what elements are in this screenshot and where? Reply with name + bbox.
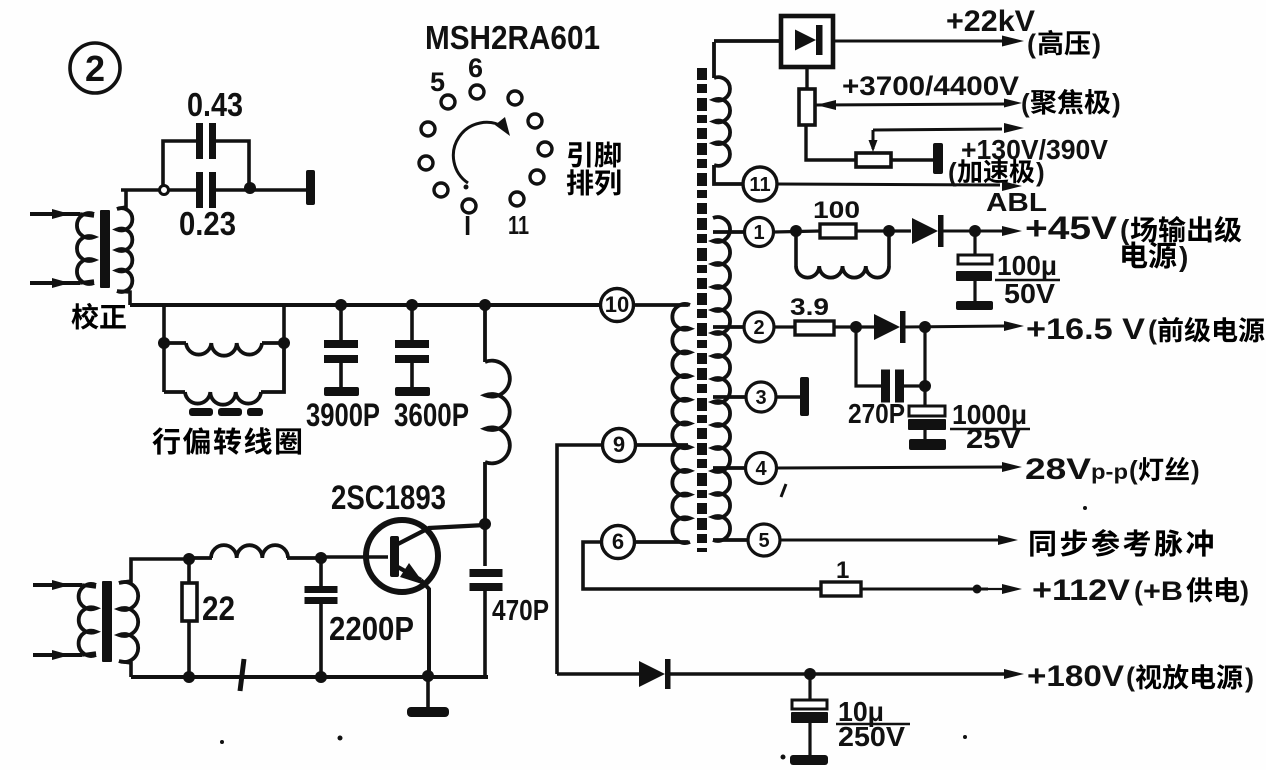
wire focus R to pot <box>806 125 856 160</box>
svg-text:+45V: +45V <box>1025 210 1118 246</box>
node emitter bottom <box>422 670 434 682</box>
svg-text:0.43: 0.43 <box>187 86 243 123</box>
resistor focus <box>799 89 815 125</box>
svg-text:): ) <box>1036 157 1045 187</box>
svg-text:(: ( <box>948 157 957 187</box>
wire D2 out <box>904 326 1006 327</box>
inductor pin1 parallel <box>794 231 798 266</box>
wire T2 sec bottom <box>119 661 131 677</box>
wire pin10 lead <box>633 303 688 307</box>
wire base lead <box>321 555 388 559</box>
wire accel line <box>873 129 1002 130</box>
svg-text:250V: 250V <box>838 721 905 752</box>
node pin1 b <box>883 225 895 237</box>
svg-text:(: ( <box>1120 214 1130 245</box>
svg-text:2200P: 2200P <box>329 610 414 647</box>
tick mark <box>240 659 244 691</box>
svg-text:(: ( <box>1021 88 1030 118</box>
node 22 bottom <box>183 671 195 683</box>
ground <box>426 677 430 708</box>
svg-text:+16.5 V: +16.5 V <box>1026 313 1145 346</box>
svg-text:22: 22 <box>202 590 235 628</box>
svg-text:+B: +B <box>1143 576 1183 606</box>
node 3600P top <box>406 299 418 311</box>
capacitor 100u <box>973 231 976 255</box>
capacitor 470P <box>483 524 487 566</box>
wire pin1 to R100 <box>774 231 820 232</box>
svg-text:0.23: 0.23 <box>179 205 236 242</box>
pin 11 <box>743 167 777 201</box>
transformer T2 core <box>102 581 112 662</box>
node base node <box>183 553 195 565</box>
svg-text:2SC1893: 2SC1893 <box>331 479 446 517</box>
resistor 22 <box>187 559 191 583</box>
svg-text:3600P: 3600P <box>394 397 469 433</box>
inductor base <box>189 556 212 560</box>
svg-text:+130V/390V: +130V/390V <box>961 134 1108 165</box>
wire input bottom lead <box>30 281 80 285</box>
inductor deflection bottom <box>164 390 185 394</box>
wire pin2 lead <box>713 325 745 329</box>
node open circle <box>160 186 169 195</box>
wire T1 sec top to 0.23 line <box>117 190 126 209</box>
node 180V <box>804 668 816 680</box>
terminal bar accel <box>933 143 943 174</box>
label 电源 <box>1122 242 1147 269</box>
node 2200P top <box>315 552 327 564</box>
svg-text:10: 10 <box>605 292 629 317</box>
svg-text:+180V: +180V <box>1027 660 1124 693</box>
pin 2 <box>744 312 774 342</box>
svg-text:100: 100 <box>813 197 860 224</box>
svg-text:2: 2 <box>753 317 764 339</box>
node pin1 a <box>790 225 802 237</box>
svg-text:3.9: 3.9 <box>790 294 829 321</box>
svg-text:6: 6 <box>612 529 624 554</box>
svg-text:28V: 28V <box>1025 453 1091 486</box>
inductor T2 primary <box>79 584 96 656</box>
svg-text:(: ( <box>1134 576 1143 606</box>
wire pin4 lead <box>713 466 746 470</box>
wire ground bus <box>131 675 488 679</box>
svg-text:): ) <box>1240 576 1249 606</box>
label 排列 <box>567 169 593 195</box>
svg-text:6: 6 <box>468 53 483 83</box>
capacitor 270P <box>856 327 881 386</box>
wire R100 to diode <box>856 229 911 232</box>
node 3900P top <box>335 299 347 311</box>
wire T1 sec bottom to bus <box>117 291 130 305</box>
label 同步参考脉冲 <box>1030 531 1055 557</box>
wire 180V line <box>669 672 1004 675</box>
pin layout circles <box>470 85 484 99</box>
wire 0.43 loop left <box>163 141 196 185</box>
diode D1 <box>912 218 938 244</box>
svg-text:5: 5 <box>430 67 445 97</box>
pot wiper <box>872 130 875 149</box>
wire 0.23 line left <box>121 188 196 192</box>
pin layout arc <box>453 122 505 183</box>
wire 180V left <box>557 672 640 676</box>
capacitor C 3600P <box>410 305 414 340</box>
node +112V <box>973 585 982 594</box>
pin 10 <box>601 289 634 322</box>
svg-text:50V: 50V <box>1004 278 1055 309</box>
node pin2 a <box>850 321 862 333</box>
svg-text:(: ( <box>1129 455 1138 485</box>
pin 6 <box>602 526 635 559</box>
wire pin5 line <box>780 539 1000 542</box>
pin 4 <box>746 453 777 484</box>
wire pin6 left <box>583 542 821 589</box>
node junction <box>244 182 256 194</box>
pin 1 <box>745 218 774 247</box>
svg-text:(: ( <box>1126 662 1135 692</box>
wire R to D2 <box>834 325 876 328</box>
wire pin5 lead <box>713 538 748 542</box>
terminal bar pin3 <box>800 377 809 416</box>
label 校正 <box>72 303 99 330</box>
wire pin1 lead <box>713 230 745 234</box>
capacitor 2200P <box>319 558 323 586</box>
wire pin9 lead <box>636 443 688 447</box>
svg-text:470P: 470P <box>492 595 549 627</box>
svg-text:11: 11 <box>508 210 529 240</box>
svg-text:100μ: 100μ <box>997 250 1057 281</box>
wire focus line <box>816 104 1004 105</box>
transistor Q1 collector <box>396 525 485 545</box>
resistor 100 <box>820 224 856 238</box>
transformer FBT core <box>697 68 707 552</box>
node +45V <box>969 225 981 237</box>
svg-text:): ) <box>1092 29 1101 59</box>
HV rectifier box <box>781 16 833 67</box>
wire D1 out <box>943 230 1006 233</box>
node coil left <box>158 337 170 349</box>
svg-text:3900P: 3900P <box>306 397 380 433</box>
capacitor 10u <box>808 674 811 700</box>
resistor 1 <box>821 582 861 596</box>
wire HV top <box>714 39 781 43</box>
svg-text:+22kV: +22kV <box>946 5 1035 38</box>
wire +22kV line <box>833 40 1006 43</box>
transformer T1 core <box>100 210 110 288</box>
svg-text:(: ( <box>1027 29 1036 59</box>
svg-text:): ) <box>1112 88 1121 118</box>
node pin2 b <box>919 321 931 333</box>
node 2200P bottom <box>315 671 327 683</box>
inductor deflection top <box>164 341 186 345</box>
svg-text:MSH2RA601: MSH2RA601 <box>425 19 600 56</box>
wire pin6 lead <box>635 540 688 544</box>
capacitor C 3900P <box>339 305 343 340</box>
node drive coil top <box>479 299 491 311</box>
svg-text:): ) <box>1179 241 1188 272</box>
wire drive input top lead <box>33 583 82 587</box>
pin 5 <box>748 524 780 556</box>
inductor T1 primary <box>77 213 94 284</box>
inductor T1 secondary <box>117 208 132 292</box>
stray tick <box>781 484 786 497</box>
resistor 3.9 <box>795 321 834 335</box>
svg-text:1: 1 <box>836 557 849 584</box>
svg-text:p-p: p-p <box>1091 461 1128 484</box>
svg-text:5: 5 <box>758 530 769 552</box>
potentiometer screen <box>856 153 891 167</box>
inductor T2 secondary <box>119 582 138 662</box>
svg-text:25V: 25V <box>966 423 1021 454</box>
svg-text:11: 11 <box>749 174 770 196</box>
transistor Q1 body <box>366 520 438 592</box>
node collector junction <box>479 518 491 530</box>
svg-text:): ) <box>1191 455 1200 485</box>
label 行偏转线圈 <box>152 427 179 454</box>
wire pin3 lead <box>713 395 746 399</box>
wire pin9 left <box>557 445 603 674</box>
svg-text:+3700/4400V: +3700/4400V <box>842 71 1019 101</box>
node 270P out <box>919 380 931 392</box>
svg-text:1: 1 <box>753 222 764 244</box>
wire drive input bottom lead <box>33 653 82 657</box>
svg-text:9: 9 <box>613 432 625 457</box>
diode D3 <box>639 661 665 687</box>
figure label 2 <box>70 43 120 93</box>
svg-text:270P: 270P <box>848 398 905 429</box>
transistor Q1 base bar <box>390 536 399 577</box>
inductor FBT secondary <box>713 217 730 541</box>
node coil right <box>278 337 290 349</box>
wire pin3 stub <box>776 395 801 398</box>
diode D2 <box>874 314 900 340</box>
capacitor 0.43 <box>196 123 203 159</box>
pin 9 <box>603 429 636 462</box>
capacitor 1000u <box>923 327 926 406</box>
capacitor 0.23 <box>196 172 203 208</box>
wire box to focus R <box>805 67 808 89</box>
wire ABL line <box>777 184 1000 185</box>
inductor FBT HV winding <box>712 42 716 78</box>
transistor Q1 emitter <box>396 566 421 580</box>
svg-text:l: l <box>464 211 471 241</box>
wire coil right drop <box>282 305 286 343</box>
wire pin4 line <box>777 467 1004 468</box>
speck <box>220 740 224 744</box>
wire pot to bar <box>891 158 933 161</box>
terminal bar <box>306 170 315 205</box>
svg-text:+112V: +112V <box>1032 574 1130 607</box>
label 引脚 <box>568 142 590 168</box>
inductor drive <box>483 305 487 362</box>
svg-text:3: 3 <box>755 387 766 409</box>
wire bus to pin 10 <box>130 303 600 307</box>
deflection coil core dashes <box>189 408 213 416</box>
svg-text:2: 2 <box>85 48 105 89</box>
wire T2 sec top <box>119 559 189 583</box>
wire input top lead <box>30 212 80 216</box>
HV rectifier diode <box>795 30 816 51</box>
wire coil left drop <box>162 305 166 392</box>
wire 0.23 line right <box>215 188 306 192</box>
inductor FBT primary <box>672 304 690 543</box>
pin 3 <box>746 382 776 412</box>
svg-text:4: 4 <box>755 458 767 480</box>
wire pin2 to R <box>774 325 795 328</box>
svg-text:(: ( <box>1148 315 1157 345</box>
wire 0.43 loop right <box>215 141 249 184</box>
svg-text:): ) <box>1245 663 1254 693</box>
wire +112V line <box>861 588 988 591</box>
